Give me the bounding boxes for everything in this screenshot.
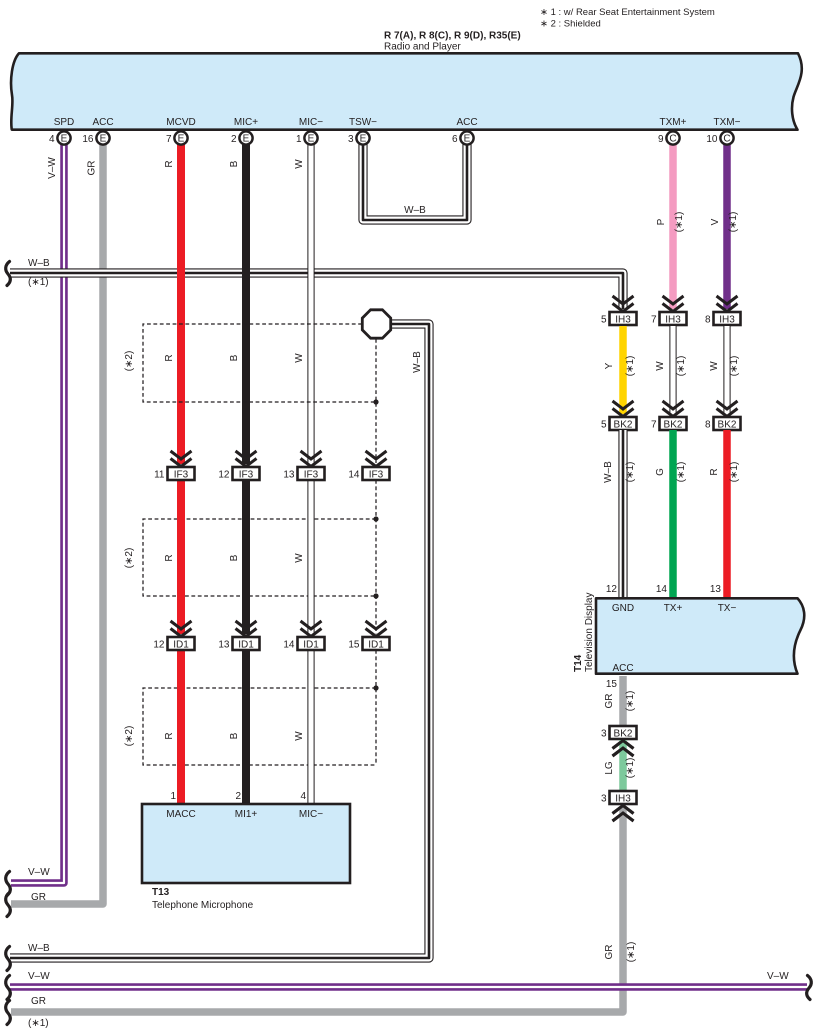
connector BK2 pin 3 bbox=[601, 726, 637, 740]
svg-text:7: 7 bbox=[651, 420, 657, 431]
svg-text:4: 4 bbox=[300, 791, 306, 802]
pin 3 TSW- bbox=[348, 131, 370, 144]
arrow into IH3 pin 3 bbox=[613, 806, 634, 822]
wire B wire IF3 to ID1 bbox=[242, 480, 250, 634]
svg-text:BK2: BK2 bbox=[614, 729, 633, 740]
svg-text:R: R bbox=[709, 468, 720, 475]
connector BK2 pin 5 bbox=[601, 417, 637, 431]
svg-text:TX−: TX− bbox=[718, 603, 737, 614]
wire R wire IF3 to ID1 bbox=[177, 480, 185, 634]
svg-text:E: E bbox=[178, 134, 185, 145]
svg-text:MI1+: MI1+ bbox=[235, 809, 258, 820]
svg-text:B: B bbox=[229, 732, 240, 739]
svg-text:W: W bbox=[294, 159, 305, 169]
wire G wire BK2-7 to T14 TX+ bbox=[669, 430, 677, 598]
svg-text:12: 12 bbox=[218, 470, 230, 481]
svg-text:ACC: ACC bbox=[92, 117, 113, 128]
wire GR wire T14-15 to BK2-3 bbox=[619, 676, 627, 726]
svg-text:E: E bbox=[464, 134, 471, 145]
svg-text:MIC−: MIC− bbox=[299, 117, 323, 128]
arrow into BK2 pin 7 bbox=[663, 401, 684, 417]
arrow into ID1 pin 12 bbox=[171, 621, 192, 637]
svg-text:(∗1): (∗1) bbox=[625, 462, 636, 483]
svg-text:∗ 2 : Shielded: ∗ 2 : Shielded bbox=[540, 19, 601, 30]
svg-text:7: 7 bbox=[166, 134, 172, 145]
svg-text:Y: Y bbox=[604, 362, 615, 369]
svg-text:W–B: W–B bbox=[28, 258, 50, 269]
wire V-W from SPD pin 4 bbox=[11, 140, 64, 883]
svg-text:V: V bbox=[710, 218, 721, 225]
svg-text:16: 16 bbox=[82, 134, 94, 145]
svg-text:(∗1): (∗1) bbox=[676, 462, 687, 483]
svg-text:GR: GR bbox=[87, 161, 98, 176]
connector ID1 (R) pin 12 bbox=[153, 637, 194, 651]
svg-text:13: 13 bbox=[218, 640, 230, 651]
wire W wire MIC- to IF3-13 bbox=[307, 140, 314, 464]
arrow into IF3 pin 13 bbox=[301, 451, 322, 467]
svg-text:E: E bbox=[100, 134, 107, 145]
svg-text:(∗2): (∗2) bbox=[124, 548, 135, 569]
arrow into BK2 pin 3 (over) bbox=[613, 741, 634, 757]
svg-text:TSW−: TSW− bbox=[349, 117, 377, 128]
svg-text:TX+: TX+ bbox=[664, 603, 683, 614]
svg-text:8: 8 bbox=[705, 315, 711, 326]
torn end V-W bus left bbox=[6, 976, 11, 1000]
svg-text:V–W: V–W bbox=[47, 157, 58, 179]
connector BK2 pin 8 bbox=[705, 417, 741, 431]
svg-text:2: 2 bbox=[235, 791, 241, 802]
torn end GR left bbox=[6, 893, 11, 917]
svg-text:Telephone Microphone: Telephone Microphone bbox=[152, 900, 254, 911]
arrow into IH3 pin 7 bbox=[663, 296, 684, 312]
svg-text:R: R bbox=[164, 354, 175, 361]
svg-text:GND: GND bbox=[612, 603, 634, 614]
svg-text:V–W: V–W bbox=[28, 971, 50, 982]
shield box 2 (*2) bbox=[143, 519, 376, 596]
connector IH3 pin 3 bbox=[601, 791, 637, 805]
svg-text:W–B: W–B bbox=[412, 351, 423, 373]
wire R wire ID1 to T13 bbox=[177, 650, 185, 805]
pin 16 ACC bbox=[82, 131, 109, 144]
arrow into BK2 pin 3 bbox=[613, 741, 634, 757]
svg-text:MIC+: MIC+ bbox=[234, 117, 258, 128]
svg-text:B: B bbox=[229, 160, 240, 167]
svg-text:E: E bbox=[360, 134, 367, 145]
svg-text:W–B: W–B bbox=[28, 943, 50, 954]
arrow into IH3 pin 5 bbox=[613, 296, 634, 312]
svg-text:G: G bbox=[655, 468, 666, 476]
arrow into IH3 pin 8 bbox=[717, 296, 738, 312]
svg-text:14: 14 bbox=[348, 470, 360, 481]
svg-text:R: R bbox=[164, 160, 175, 167]
svg-text:Radio and Player: Radio and Player bbox=[384, 42, 461, 53]
svg-text:ACC: ACC bbox=[612, 663, 633, 674]
svg-text:(∗1): (∗1) bbox=[625, 691, 636, 712]
svg-text:IF3: IF3 bbox=[369, 470, 384, 481]
svg-text:3: 3 bbox=[601, 794, 607, 805]
svg-text:13: 13 bbox=[710, 584, 722, 595]
svg-text:C: C bbox=[723, 134, 730, 145]
connector IF3 (W) pin 13 bbox=[283, 467, 324, 481]
svg-text:ACC: ACC bbox=[456, 117, 477, 128]
shield box 1 (*2) bbox=[143, 324, 376, 402]
junction node 2 on shield drain bbox=[373, 516, 378, 521]
svg-text:6: 6 bbox=[452, 134, 458, 145]
junction node 4 on shield drain bbox=[373, 685, 378, 690]
svg-text:Television Display: Television Display bbox=[584, 593, 595, 672]
arrow into IF3 pin 11 bbox=[171, 451, 192, 467]
svg-text:GR: GR bbox=[31, 892, 46, 903]
svg-text:TXM+: TXM+ bbox=[660, 117, 687, 128]
svg-text:W: W bbox=[294, 353, 305, 363]
svg-text:E: E bbox=[308, 134, 315, 145]
svg-text:GR: GR bbox=[31, 996, 46, 1007]
svg-text:4: 4 bbox=[49, 134, 55, 145]
pin 4 SPD bbox=[49, 131, 71, 144]
svg-text:(∗1): (∗1) bbox=[674, 212, 685, 233]
shield ground symbol (octagon) bbox=[362, 310, 390, 338]
torn end W-B drain left bbox=[6, 947, 11, 971]
wire LG wire BK2-3 to IH3-3 bbox=[619, 740, 627, 791]
pin 6 ACC bbox=[452, 131, 474, 144]
svg-text:B: B bbox=[229, 354, 240, 361]
svg-text:5: 5 bbox=[601, 315, 607, 326]
svg-text:BK2: BK2 bbox=[718, 420, 737, 431]
connector IF3 (R) pin 11 bbox=[154, 467, 194, 481]
svg-text:E: E bbox=[243, 134, 250, 145]
svg-text:(∗1): (∗1) bbox=[625, 356, 636, 377]
torn end V-W bus right bbox=[807, 976, 812, 1000]
arrow into ID1 pin 15 bbox=[366, 621, 387, 637]
connector IH3 pin 7 bbox=[651, 312, 687, 326]
svg-text:IF3: IF3 bbox=[174, 470, 189, 481]
svg-text:(∗1): (∗1) bbox=[626, 942, 637, 963]
arrow into ID1 pin 14 bbox=[301, 621, 322, 637]
wire V wire TXM- to IH3-8 bbox=[723, 140, 731, 309]
connector band R7/R8/R9/R35 Radio and Player bbox=[11, 53, 802, 129]
svg-text:(∗2): (∗2) bbox=[124, 351, 135, 372]
svg-text:MCVD: MCVD bbox=[166, 117, 195, 128]
svg-text:2: 2 bbox=[231, 134, 237, 145]
svg-text:IF3: IF3 bbox=[239, 470, 254, 481]
wire B wire ID1 to T13 bbox=[242, 650, 250, 805]
pin 10 TXM- bbox=[706, 131, 733, 144]
wire W wire IF3 to ID1 bbox=[307, 480, 314, 634]
svg-text:(∗1): (∗1) bbox=[625, 758, 636, 779]
svg-text:MIC−: MIC− bbox=[299, 809, 323, 820]
svg-text:ID1: ID1 bbox=[303, 640, 319, 651]
svg-text:15: 15 bbox=[606, 679, 618, 690]
shield drain dashed wire bbox=[375, 339, 377, 765]
svg-text:W–B: W–B bbox=[404, 205, 426, 216]
svg-text:BK2: BK2 bbox=[664, 420, 683, 431]
svg-text:TXM−: TXM− bbox=[714, 117, 741, 128]
svg-text:IH3: IH3 bbox=[719, 315, 735, 326]
wire W-B wire BK2-5 to T14 GND bbox=[618, 430, 627, 598]
svg-text:(∗1): (∗1) bbox=[729, 356, 740, 377]
svg-text:14: 14 bbox=[656, 584, 668, 595]
connector ID1 (W) pin 14 bbox=[283, 637, 324, 651]
wire GR from ACC pin 16 bbox=[11, 140, 103, 904]
svg-text:C: C bbox=[669, 134, 676, 145]
svg-text:W–B: W–B bbox=[603, 461, 614, 483]
connector IH3 pin 5 bbox=[601, 312, 637, 326]
svg-text:(∗1): (∗1) bbox=[728, 212, 739, 233]
pin 9 TXM+ bbox=[658, 131, 680, 144]
wire W wire IH3-7 to BK2-7 bbox=[669, 326, 676, 414]
svg-text:3: 3 bbox=[348, 134, 354, 145]
wire shield drain W-B bbox=[10, 324, 429, 958]
svg-text:W: W bbox=[655, 361, 666, 371]
shield box 3 (*2) bbox=[143, 688, 376, 765]
svg-text:MACC: MACC bbox=[166, 809, 195, 820]
wire W-B loop TSW- to ACC bbox=[363, 140, 467, 220]
wire B wire MIC+ to IF3-12 bbox=[242, 140, 250, 464]
svg-text:∗ 1 : w/ Rear Seat Entertainme: ∗ 1 : w/ Rear Seat Entertainment System bbox=[540, 7, 715, 18]
connector IF3 (shield) pin 14 bbox=[348, 467, 389, 481]
wire W wire ID1 to T13 bbox=[307, 650, 314, 805]
svg-text:12: 12 bbox=[606, 584, 618, 595]
connector ID1 (shield) pin 15 bbox=[348, 637, 389, 651]
svg-text:ID1: ID1 bbox=[368, 640, 384, 651]
svg-text:BK2: BK2 bbox=[614, 420, 633, 431]
svg-text:V–W: V–W bbox=[28, 867, 50, 878]
svg-text:T13: T13 bbox=[152, 887, 170, 898]
torn end W-B bus left bbox=[6, 262, 11, 286]
svg-text:13: 13 bbox=[283, 470, 295, 481]
svg-text:SPD: SPD bbox=[54, 117, 75, 128]
svg-text:IH3: IH3 bbox=[615, 794, 631, 805]
wire R wire BK2-8 to T14 TX- bbox=[723, 430, 731, 598]
torn end GR bus left bbox=[6, 1001, 11, 1025]
pin 1 MIC- bbox=[296, 131, 318, 144]
svg-text:R 7(A), R 8(C), R 9(D), R35(E): R 7(A), R 8(C), R 9(D), R35(E) bbox=[384, 31, 521, 42]
arrow into ID1 pin 13 bbox=[236, 621, 257, 637]
svg-text:IF3: IF3 bbox=[304, 470, 319, 481]
connector IF3 (B) pin 12 bbox=[218, 467, 259, 481]
svg-text:(∗2): (∗2) bbox=[124, 726, 135, 747]
svg-text:V–W: V–W bbox=[767, 971, 789, 982]
connector BK2 pin 7 bbox=[651, 417, 687, 431]
svg-text:12: 12 bbox=[153, 640, 165, 651]
svg-text:11: 11 bbox=[154, 470, 165, 481]
svg-text:W: W bbox=[294, 731, 305, 741]
svg-text:IH3: IH3 bbox=[615, 315, 631, 326]
svg-text:(∗1): (∗1) bbox=[28, 1018, 49, 1029]
svg-text:1: 1 bbox=[170, 791, 176, 802]
svg-text:R: R bbox=[164, 732, 175, 739]
svg-text:1: 1 bbox=[296, 134, 302, 145]
connector IH3 pin 8 bbox=[705, 312, 741, 326]
connector ID1 (B) pin 13 bbox=[218, 637, 259, 651]
wire GR wire IH3-3 to bottom bus bbox=[11, 806, 623, 1012]
svg-text:GR: GR bbox=[604, 694, 615, 709]
wire W-B bus to IH3-5 bbox=[10, 273, 623, 309]
wire P wire TXM+ to IH3-7 bbox=[669, 140, 677, 309]
svg-text:14: 14 bbox=[283, 640, 295, 651]
pin 2 MIC+ bbox=[231, 131, 253, 144]
wire Y wire IH3-5 to BK2-5 bbox=[619, 326, 627, 414]
wire W wire IH3-8 to BK2-8 bbox=[723, 326, 730, 414]
svg-text:3: 3 bbox=[601, 729, 607, 740]
svg-text:(∗1): (∗1) bbox=[729, 462, 740, 483]
arrow into IF3 pin 12 bbox=[236, 451, 257, 467]
svg-text:7: 7 bbox=[651, 315, 657, 326]
junction node 3 on shield drain bbox=[373, 593, 378, 598]
component T14 Television Display bbox=[596, 598, 804, 673]
wire R wire MCVD to IF3-11 bbox=[177, 140, 185, 464]
svg-text:E: E bbox=[61, 134, 68, 145]
arrow into IF3 pin 14 bbox=[366, 451, 387, 467]
svg-text:W: W bbox=[294, 553, 305, 563]
arrow into BK2 pin 5 bbox=[613, 401, 634, 417]
torn end V-W left bbox=[6, 872, 11, 896]
svg-text:5: 5 bbox=[601, 420, 607, 431]
svg-text:(∗1): (∗1) bbox=[676, 356, 687, 377]
svg-text:(∗1): (∗1) bbox=[28, 277, 49, 288]
component T13 Telephone Microphone bbox=[142, 804, 350, 883]
wire V-W bottom bus bbox=[10, 983, 807, 991]
arrow into BK2 pin 8 bbox=[717, 401, 738, 417]
arrow into IH3 pin 3 (over) bbox=[613, 806, 634, 822]
svg-text:IH3: IH3 bbox=[665, 315, 681, 326]
svg-text:ID1: ID1 bbox=[238, 640, 254, 651]
svg-text:10: 10 bbox=[706, 134, 718, 145]
svg-text:T14: T14 bbox=[573, 654, 584, 672]
svg-text:W: W bbox=[709, 361, 720, 371]
svg-text:ID1: ID1 bbox=[173, 640, 189, 651]
svg-text:GR: GR bbox=[604, 945, 615, 960]
svg-text:15: 15 bbox=[348, 640, 360, 651]
svg-text:9: 9 bbox=[658, 134, 664, 145]
junction node 1 on shield drain bbox=[373, 399, 378, 404]
svg-text:LG: LG bbox=[604, 761, 615, 775]
svg-text:R: R bbox=[164, 554, 175, 561]
svg-text:B: B bbox=[229, 554, 240, 561]
svg-text:8: 8 bbox=[705, 420, 711, 431]
svg-text:P: P bbox=[656, 218, 667, 225]
pin 7 MCVD bbox=[166, 131, 188, 144]
